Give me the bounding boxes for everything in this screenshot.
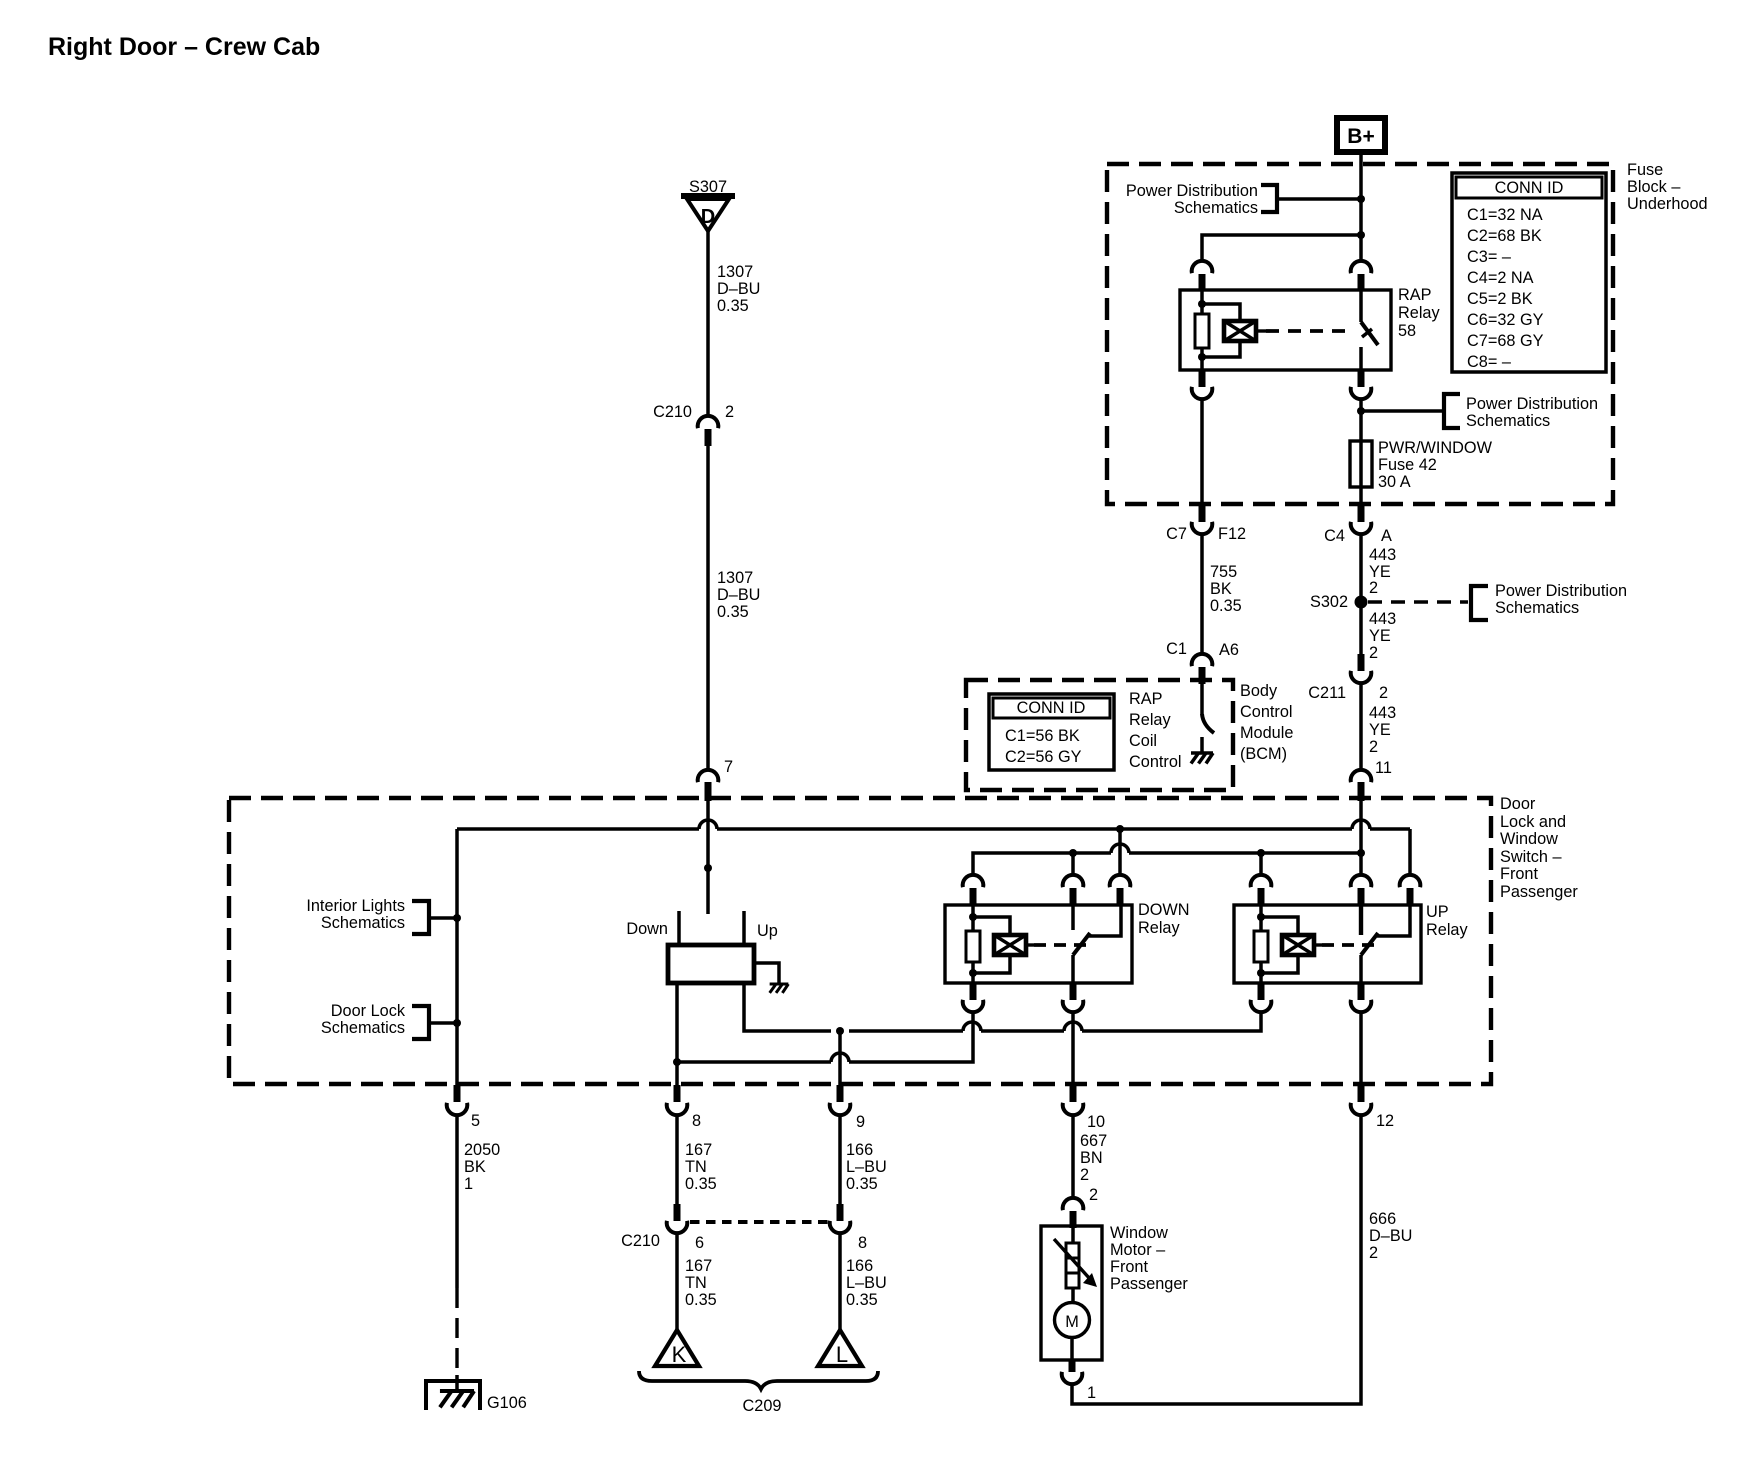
wire ground bus (top, with hops) bbox=[457, 827, 1410, 831]
wire label 166 L-BU 0.35 (lower) bbox=[846, 1257, 887, 1309]
wire 166 L-BU pin 9 to C210 bbox=[838, 1114, 842, 1204]
svg-text:2: 2 bbox=[725, 403, 734, 421]
BCM RAP Relay Coil Control label bbox=[1129, 690, 1182, 771]
svg-text:L: L bbox=[836, 1342, 848, 1367]
fuse PWR/WINDOW Fuse 42 30 A bbox=[1350, 439, 1493, 505]
wire RAP coil to C7 bbox=[1200, 398, 1204, 505]
ground symbol at window switch bbox=[770, 984, 789, 993]
svg-text:F12: F12 bbox=[1218, 525, 1246, 543]
svg-text:Control: Control bbox=[1240, 703, 1293, 721]
svg-text:Lock and: Lock and bbox=[1500, 813, 1566, 831]
connector C1 A6 bbox=[1166, 640, 1239, 684]
wire 1307 D-BU from C210 to pin 7 bbox=[706, 446, 710, 769]
connector RAP relay coil pin (top left) bbox=[1192, 261, 1213, 290]
wire label 2050 BK 1 bbox=[464, 1141, 500, 1193]
svg-text:Down: Down bbox=[626, 920, 668, 938]
motor M circle bbox=[1055, 1288, 1090, 1360]
node junction on switch common wire bbox=[704, 864, 712, 872]
svg-text:Motor –: Motor – bbox=[1110, 1241, 1166, 1259]
node UP coil junctions bbox=[1257, 913, 1265, 977]
relay DOWN actuation dashed link bbox=[1034, 943, 1086, 947]
window switch Up contact bbox=[744, 911, 778, 945]
connector pin 10 bbox=[1063, 1085, 1105, 1131]
connector C210 dotted link bbox=[690, 1220, 828, 1224]
svg-text:5: 5 bbox=[471, 1112, 480, 1130]
svg-text:8: 8 bbox=[858, 1234, 867, 1252]
svg-text:Relay: Relay bbox=[1138, 919, 1180, 937]
svg-text:167: 167 bbox=[685, 1257, 712, 1275]
wire hop over pin7 wire bbox=[699, 820, 717, 829]
connector pin 11 of door switch bbox=[1351, 759, 1392, 801]
svg-text:Schematics: Schematics bbox=[1466, 412, 1550, 430]
svg-text:S302: S302 bbox=[1310, 593, 1348, 611]
splice L triangle bbox=[818, 1330, 862, 1367]
svg-text:Schematics: Schematics bbox=[321, 914, 405, 932]
BCM driver switch to ground bbox=[1202, 684, 1214, 752]
svg-text:CONN ID: CONN ID bbox=[1495, 179, 1564, 197]
wire label 443 YE 2 (below S302) bbox=[1369, 610, 1396, 662]
svg-text:M: M bbox=[1065, 1313, 1079, 1331]
wire power line (from pin 11, with hop) bbox=[973, 853, 1361, 874]
wire hop over pin 9 wire bbox=[831, 1053, 849, 1062]
wire Up contact to UP relay coil (with hops) bbox=[744, 983, 1261, 1031]
svg-text:Relay: Relay bbox=[1398, 304, 1440, 322]
wire label 167 TN 0.35 (upper) bbox=[685, 1141, 717, 1193]
connector pin 9 bbox=[830, 1085, 865, 1131]
svg-text:0.35: 0.35 bbox=[1210, 597, 1242, 615]
node junction Down line to pin 8 bbox=[673, 1058, 681, 1066]
relay DOWN label bbox=[1138, 901, 1190, 937]
svg-text:Front: Front bbox=[1110, 1258, 1148, 1276]
svg-text:Coil: Coil bbox=[1129, 732, 1157, 750]
svg-text:C7=68 GY: C7=68 GY bbox=[1467, 332, 1544, 350]
svg-text:11: 11 bbox=[1375, 759, 1392, 777]
svg-text:1: 1 bbox=[1087, 1384, 1096, 1402]
ground symbol in BCM bbox=[1191, 753, 1213, 764]
wire B+ to RAP relay bbox=[1359, 155, 1363, 261]
wire branch to RAP relay coil pin bbox=[1202, 231, 1365, 261]
brace C209 bbox=[639, 1371, 878, 1415]
svg-text:C1=56 BK: C1=56 BK bbox=[1005, 727, 1080, 745]
svg-text:C210: C210 bbox=[653, 403, 692, 421]
relay UP label bbox=[1426, 903, 1468, 939]
svg-text:L–BU: L–BU bbox=[846, 1158, 887, 1176]
svg-text:UP: UP bbox=[1426, 903, 1449, 921]
svg-text:2050: 2050 bbox=[464, 1141, 500, 1159]
svg-text:Block –: Block – bbox=[1627, 178, 1681, 196]
svg-text:TN: TN bbox=[685, 1274, 707, 1292]
battery feed B+ bbox=[1337, 118, 1385, 152]
node junction interior lights tap bbox=[453, 914, 461, 922]
relay DOWN switch blade bbox=[1073, 905, 1121, 983]
window switch rocker body bbox=[668, 945, 754, 983]
connector UP relay switch pin (bottom) bbox=[1351, 983, 1372, 1012]
svg-text:C211: C211 bbox=[1308, 684, 1346, 702]
svg-text:1307: 1307 bbox=[717, 569, 753, 587]
svg-text:RAP: RAP bbox=[1398, 286, 1431, 304]
relay RAP Relay 58 box bbox=[1180, 290, 1391, 370]
power distribution schematics reference (S302) bbox=[1368, 582, 1627, 620]
svg-text:10: 10 bbox=[1087, 1113, 1105, 1131]
connector UP relay coil pin (top) bbox=[1251, 875, 1272, 905]
wire 443 YE S302 to C211 bbox=[1359, 602, 1363, 654]
splice S307 triangle bbox=[681, 196, 735, 231]
relay RAP coil winding symbol bbox=[1202, 304, 1266, 357]
connector motor pin 1 bbox=[1062, 1360, 1096, 1402]
wire hop over DOWN relay right pin wire bbox=[1111, 844, 1129, 853]
wire 167 TN C210 to splice K bbox=[675, 1232, 679, 1330]
window motor label bbox=[1110, 1224, 1188, 1293]
wire bus corner to UP relay right pin bbox=[1408, 829, 1412, 874]
relay DOWN coil winding symbol bbox=[973, 917, 1034, 973]
connector RAP relay switch pin (top right) bbox=[1351, 261, 1372, 290]
svg-text:RAP: RAP bbox=[1129, 690, 1162, 708]
BCM dashed enclosure bbox=[966, 680, 1233, 790]
svg-text:667: 667 bbox=[1080, 1132, 1107, 1150]
svg-text:2: 2 bbox=[1369, 738, 1378, 756]
splice S307 label bbox=[689, 178, 727, 196]
connector C211 pin 2 bbox=[1308, 654, 1388, 702]
connector pin 12 bbox=[1351, 1085, 1394, 1130]
svg-text:9: 9 bbox=[856, 1113, 865, 1131]
svg-text:D–BU: D–BU bbox=[1369, 1227, 1412, 1245]
motor circuit breaker bbox=[1054, 1226, 1097, 1288]
title bbox=[48, 33, 320, 61]
svg-text:C209: C209 bbox=[743, 1397, 782, 1415]
connector pin 5 bbox=[447, 1085, 480, 1130]
svg-text:2: 2 bbox=[1379, 684, 1388, 702]
svg-text:Body: Body bbox=[1240, 682, 1278, 700]
wire label 666 D-BU 2 bbox=[1369, 1210, 1412, 1262]
svg-text:Passenger: Passenger bbox=[1500, 883, 1578, 901]
svg-text:C7: C7 bbox=[1166, 525, 1187, 543]
svg-text:755: 755 bbox=[1210, 563, 1237, 581]
splice K triangle bbox=[655, 1330, 699, 1367]
relay DOWN box bbox=[945, 905, 1132, 983]
connector DOWN relay switch pin (bottom) bbox=[1063, 983, 1084, 1012]
connector pin 7 of door switch bbox=[698, 758, 733, 801]
svg-text:12: 12 bbox=[1376, 1112, 1394, 1130]
svg-text:Control: Control bbox=[1129, 753, 1182, 771]
window switch ground branch bbox=[754, 963, 779, 983]
window motor box bbox=[1041, 1226, 1102, 1360]
svg-text:C3= –: C3= – bbox=[1467, 248, 1512, 266]
wire 666 D-BU motor pin1 to pin 12 bbox=[1072, 1114, 1361, 1404]
wire hop over pin11 wire bbox=[1352, 820, 1370, 829]
wire 443 YE C4 to S302 bbox=[1359, 533, 1363, 602]
wire bus drop to DOWN relay right pin bbox=[1118, 829, 1122, 874]
CONN ID table (BCM) bbox=[989, 694, 1114, 770]
wire label 1307 D-BU 0.35 (upper) bbox=[717, 263, 760, 315]
wire label 167 TN 0.35 (lower) bbox=[685, 1257, 717, 1309]
node junction PDS tap below relay bbox=[1357, 407, 1365, 415]
wire 2050 BK to ground bbox=[455, 1114, 459, 1288]
BCM Body Control Module label bbox=[1240, 682, 1293, 763]
connector DOWN relay coil pin (bottom) bbox=[963, 983, 984, 1012]
svg-text:0.35: 0.35 bbox=[846, 1175, 878, 1193]
svg-text:2: 2 bbox=[1369, 644, 1378, 662]
power distribution schematics reference (top) bbox=[1126, 182, 1361, 217]
svg-text:Door Lock: Door Lock bbox=[331, 1002, 406, 1020]
connector C210 pin 6 bbox=[621, 1204, 704, 1252]
relay UP coil resistor bbox=[1254, 905, 1268, 983]
svg-text:L–BU: L–BU bbox=[846, 1274, 887, 1292]
wire DOWN switch to pin 10 bbox=[1071, 1011, 1075, 1086]
svg-text:Window: Window bbox=[1500, 830, 1558, 848]
relay UP switch blade bbox=[1361, 905, 1410, 983]
wire label 755 BK 0.35 bbox=[1210, 563, 1242, 615]
svg-text:1: 1 bbox=[464, 1175, 473, 1193]
door lock schematics reference bbox=[321, 1002, 457, 1039]
connector DOWN relay switch pin (top middle) bbox=[1063, 875, 1084, 905]
wire Down contact to DOWN relay coil (with hop) bbox=[677, 983, 973, 1086]
wire dashed to G106 bbox=[455, 1288, 458, 1375]
wire 1307 D-BU from S307 to C210 bbox=[706, 231, 710, 415]
node power line junctions bbox=[1069, 849, 1365, 857]
svg-text:Schematics: Schematics bbox=[321, 1019, 405, 1037]
svg-text:2: 2 bbox=[1089, 1186, 1098, 1204]
connector RAP relay coil pin (bottom) bbox=[1192, 370, 1213, 399]
svg-text:0.35: 0.35 bbox=[685, 1291, 717, 1309]
svg-text:Schematics: Schematics bbox=[1174, 199, 1258, 217]
door lock and window switch dashed enclosure bbox=[229, 798, 1491, 1084]
svg-text:666: 666 bbox=[1369, 1210, 1396, 1228]
svg-text:C210: C210 bbox=[621, 1232, 660, 1250]
power distribution schematics reference (mid) bbox=[1361, 394, 1598, 430]
relay RAP coil resistor bbox=[1195, 290, 1209, 370]
svg-text:8: 8 bbox=[692, 1112, 701, 1130]
svg-text:C1: C1 bbox=[1166, 640, 1187, 658]
node junction Up line to pin 9 bbox=[836, 1027, 844, 1035]
svg-text:166: 166 bbox=[846, 1257, 873, 1275]
svg-text:C6=32 GY: C6=32 GY bbox=[1467, 311, 1544, 329]
svg-text:7: 7 bbox=[724, 758, 733, 776]
svg-text:YE: YE bbox=[1369, 721, 1391, 739]
svg-text:167: 167 bbox=[685, 1141, 712, 1159]
wire power drops to relay pins bbox=[1073, 853, 1261, 874]
node junction door lock tap bbox=[453, 1019, 461, 1027]
wire label 443 YE 2 (above S302) bbox=[1369, 546, 1396, 597]
relay UP box bbox=[1234, 905, 1421, 983]
wire 166 L-BU C210 to splice L bbox=[838, 1232, 842, 1330]
svg-text:Up: Up bbox=[757, 922, 778, 940]
svg-text:Module: Module bbox=[1240, 724, 1293, 742]
svg-text:C2=68 BK: C2=68 BK bbox=[1467, 227, 1542, 245]
interior lights schematics reference bbox=[306, 897, 457, 934]
node splice S302 bbox=[1310, 593, 1368, 611]
node junction bus to DOWN relay bbox=[1116, 825, 1124, 833]
svg-text:D–BU: D–BU bbox=[717, 280, 760, 298]
node RAP coil junctions bbox=[1198, 300, 1206, 361]
svg-text:2: 2 bbox=[1369, 1244, 1378, 1262]
svg-text:K: K bbox=[672, 1342, 687, 1367]
svg-text:D: D bbox=[701, 206, 715, 228]
connector RAP relay switch pin (bottom) bbox=[1351, 370, 1372, 399]
svg-text:G106: G106 bbox=[487, 1394, 527, 1412]
svg-text:1307: 1307 bbox=[717, 263, 753, 281]
svg-text:0.35: 0.35 bbox=[717, 603, 749, 621]
wire pin 11 through box to UP relay switch bbox=[1359, 800, 1363, 874]
wire pin 9 drop bbox=[838, 1031, 842, 1086]
svg-text:Passenger: Passenger bbox=[1110, 1275, 1188, 1293]
svg-text:Interior Lights: Interior Lights bbox=[306, 897, 405, 915]
wire hop over pin 9 drop? none; hop over DOWN coil wire bbox=[963, 1022, 981, 1031]
svg-text:BK: BK bbox=[1210, 580, 1232, 598]
svg-text:Power Distribution: Power Distribution bbox=[1495, 582, 1627, 600]
svg-text:2: 2 bbox=[1369, 579, 1378, 597]
svg-text:Power Distribution: Power Distribution bbox=[1466, 395, 1598, 413]
svg-text:Fuse 42: Fuse 42 bbox=[1378, 456, 1437, 474]
svg-text:443: 443 bbox=[1369, 546, 1396, 564]
wire 443 YE C211 to pin 11 bbox=[1359, 682, 1363, 769]
svg-text:TN: TN bbox=[685, 1158, 707, 1176]
connector UP relay switch pin (top middle) bbox=[1351, 875, 1372, 905]
svg-text:0.35: 0.35 bbox=[685, 1175, 717, 1193]
connector DOWN relay coil pin (top) bbox=[963, 875, 984, 905]
svg-text:C4: C4 bbox=[1324, 527, 1345, 545]
wire pin 7 to window switch common bbox=[706, 800, 710, 914]
connector C210 pin 2 bbox=[653, 403, 734, 446]
svg-text:CONN ID: CONN ID bbox=[1017, 699, 1086, 717]
fuse block label bbox=[1627, 161, 1708, 213]
connector pin 8 bbox=[667, 1085, 701, 1130]
wire left branch to pin 5 bbox=[455, 829, 459, 1086]
CONN ID table (fuse block) bbox=[1452, 173, 1606, 372]
wire hop over DOWN switch wire bbox=[1064, 1022, 1082, 1031]
svg-text:Fuse: Fuse bbox=[1627, 161, 1663, 179]
svg-text:A6: A6 bbox=[1219, 641, 1239, 659]
svg-text:Power Distribution: Power Distribution bbox=[1126, 182, 1258, 200]
node DOWN coil junctions bbox=[969, 913, 977, 977]
svg-text:D–BU: D–BU bbox=[717, 586, 760, 604]
svg-text:Underhood: Underhood bbox=[1627, 195, 1708, 213]
wire label 667 BN 2 bbox=[1080, 1132, 1107, 1184]
connector motor pin 2 bbox=[1063, 1186, 1098, 1228]
svg-text:(BCM): (BCM) bbox=[1240, 745, 1287, 763]
connector C4 A bbox=[1324, 505, 1392, 545]
wire UP switch to pin 12 bbox=[1359, 1011, 1363, 1086]
svg-text:C5=2 BK: C5=2 BK bbox=[1467, 290, 1533, 308]
wire label 1307 D-BU 0.35 (lower) bbox=[717, 569, 760, 621]
wire 167 TN pin 8 to C210 bbox=[675, 1114, 679, 1204]
relay RAP switch blade bbox=[1361, 290, 1378, 370]
svg-text:C1=32 NA: C1=32 NA bbox=[1467, 206, 1543, 224]
connector DOWN relay NC pin (top right) bbox=[1110, 875, 1131, 905]
relay DOWN coil resistor bbox=[966, 905, 980, 983]
svg-text:0.35: 0.35 bbox=[717, 297, 749, 315]
svg-text:2: 2 bbox=[1080, 1166, 1089, 1184]
relay RAP actuation dashed link bbox=[1266, 329, 1354, 333]
svg-text:A: A bbox=[1381, 527, 1392, 545]
svg-text:Right Door – Crew Cab: Right Door – Crew Cab bbox=[48, 33, 320, 61]
svg-text:58: 58 bbox=[1398, 322, 1416, 340]
wire label 166 L-BU 0.35 (upper) bbox=[846, 1141, 887, 1193]
connector C7 F12 bbox=[1166, 505, 1246, 543]
relay RAP Relay 58 label bbox=[1398, 286, 1440, 340]
svg-text:Door: Door bbox=[1500, 795, 1536, 813]
relay UP actuation dashed link bbox=[1322, 943, 1374, 947]
svg-text:6: 6 bbox=[695, 1234, 704, 1252]
svg-text:BN: BN bbox=[1080, 1149, 1103, 1167]
svg-text:B+: B+ bbox=[1347, 125, 1374, 148]
svg-text:Relay: Relay bbox=[1426, 921, 1468, 939]
svg-text:BK: BK bbox=[464, 1158, 486, 1176]
door lock and window switch label bbox=[1500, 795, 1578, 901]
svg-text:C4=2 NA: C4=2 NA bbox=[1467, 269, 1534, 287]
svg-text:Front: Front bbox=[1500, 865, 1538, 883]
node junction at B+ wire and PDS tap bbox=[1357, 195, 1365, 203]
window switch Down contact bbox=[626, 911, 679, 945]
relay UP coil winding symbol bbox=[1261, 917, 1322, 973]
svg-text:Relay: Relay bbox=[1129, 711, 1171, 729]
connector UP relay coil pin (bottom) bbox=[1251, 983, 1272, 1012]
svg-text:YE: YE bbox=[1369, 627, 1391, 645]
svg-text:C8= –: C8= – bbox=[1467, 353, 1512, 371]
svg-text:Schematics: Schematics bbox=[1495, 599, 1579, 617]
svg-text:443: 443 bbox=[1369, 610, 1396, 628]
svg-text:C2=56 GY: C2=56 GY bbox=[1005, 748, 1082, 766]
wire label 443 YE 2 (below C211) bbox=[1369, 704, 1396, 756]
svg-text:Window: Window bbox=[1110, 1224, 1168, 1242]
connector UP relay NC pin (top right) bbox=[1400, 875, 1421, 905]
wire RAP switch to fuse bbox=[1359, 398, 1363, 441]
svg-text:166: 166 bbox=[846, 1141, 873, 1159]
svg-text:0.35: 0.35 bbox=[846, 1291, 878, 1309]
fuse block dashed enclosure bbox=[1107, 164, 1613, 504]
svg-text:443: 443 bbox=[1369, 704, 1396, 722]
svg-text:Switch –: Switch – bbox=[1500, 848, 1562, 866]
svg-text:DOWN: DOWN bbox=[1138, 901, 1190, 919]
wire 755 BK C7 to C1 bbox=[1200, 533, 1204, 653]
wire 667 BN pin 10 to motor bbox=[1071, 1114, 1075, 1197]
ground G106 bbox=[426, 1375, 527, 1412]
svg-text:PWR/WINDOW: PWR/WINDOW bbox=[1378, 439, 1493, 457]
connector C210 pin 8 bbox=[830, 1204, 867, 1252]
svg-text:30 A: 30 A bbox=[1378, 473, 1411, 491]
